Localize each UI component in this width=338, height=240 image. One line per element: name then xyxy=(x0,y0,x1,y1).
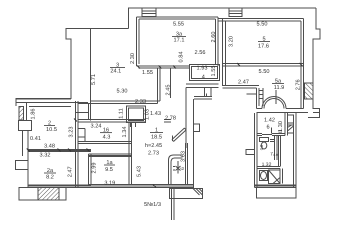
room3 right wall xyxy=(158,68,161,104)
svg-text:0.8: 0.8 xyxy=(259,144,264,150)
room4 box xyxy=(190,65,220,81)
dim line 2.45 xyxy=(170,68,172,98)
closet door stubs xyxy=(131,123,136,128)
window W2 xyxy=(229,8,242,17)
svg-text:5.50: 5.50 xyxy=(259,69,270,75)
room2 wall inner edge xyxy=(29,105,71,107)
svg-text:18.5: 18.5 xyxy=(151,135,162,141)
rooms bottom wall xyxy=(89,185,194,188)
corridor wall xyxy=(223,86,260,89)
balcony hatch xyxy=(38,188,59,201)
slab hatch xyxy=(193,189,203,196)
pipe elbow xyxy=(169,155,183,184)
wall room3a right xyxy=(216,17,219,66)
bathtub xyxy=(269,170,281,184)
vent shaft hatched xyxy=(305,83,314,99)
svg-text:2.76: 2.76 xyxy=(296,79,302,90)
svg-text:4.0: 4.0 xyxy=(273,153,278,157)
svg-text:5.55: 5.55 xyxy=(173,22,184,28)
room5a left wall xyxy=(257,88,260,109)
room16 bottom wall xyxy=(78,142,132,144)
svg-text:3.19: 3.19 xyxy=(104,181,115,187)
svg-text:2.47: 2.47 xyxy=(68,166,74,177)
svg-text:9.5: 9.5 xyxy=(105,167,113,173)
svg-text:1.86: 1.86 xyxy=(31,109,37,120)
wall room3a top xyxy=(137,17,219,19)
sink xyxy=(260,171,268,181)
outer wall top xyxy=(129,8,317,29)
svg-text:1.43: 1.43 xyxy=(150,111,161,117)
svg-text:5№1/3: 5№1/3 xyxy=(144,201,161,208)
room 1a top wall xyxy=(89,154,132,157)
notch on room1 wall xyxy=(194,124,200,132)
wall room5 bottom xyxy=(223,64,304,67)
svg-text:5.50: 5.50 xyxy=(257,22,268,28)
dim ticks xyxy=(27,63,303,188)
outer wall top-left with notch xyxy=(16,29,129,107)
bath block left wall xyxy=(255,113,258,188)
svg-text:3.48: 3.48 xyxy=(44,144,55,150)
svg-text:0.41: 0.41 xyxy=(30,136,41,142)
svg-text:17.1: 17.1 xyxy=(174,37,185,43)
svg-text:3.23: 3.23 xyxy=(69,127,75,138)
svg-text:1.93: 1.93 xyxy=(197,66,208,72)
left wall below box xyxy=(23,131,29,188)
hall top wall long xyxy=(78,120,171,123)
pipes right room7 xyxy=(270,136,277,161)
room7 right divider xyxy=(279,136,281,167)
section leader lines xyxy=(171,188,174,220)
balcony rect xyxy=(19,188,66,201)
svg-text:4: 4 xyxy=(202,75,205,81)
svg-text:3.32: 3.32 xyxy=(40,153,51,159)
svg-text:0.84: 0.84 xyxy=(179,52,185,63)
hatch window left xyxy=(19,103,27,120)
wall room5 right xyxy=(301,19,304,109)
room3 left wall xyxy=(90,29,92,121)
svg-text:1.55: 1.55 xyxy=(211,66,217,77)
notch left of block xyxy=(246,150,255,155)
room2 top outer wall xyxy=(16,98,71,100)
bath right wall xyxy=(280,169,283,184)
wall room3a left xyxy=(137,17,140,66)
svg-text:11.9: 11.9 xyxy=(274,85,284,91)
svg-text:2.56: 2.56 xyxy=(195,50,206,56)
svg-text:10.5: 10.5 xyxy=(46,127,57,133)
room6 right wall xyxy=(285,113,288,136)
door room6 xyxy=(262,128,272,135)
svg-text:1.42: 1.42 xyxy=(264,117,275,123)
svg-text:1.34: 1.34 xyxy=(122,127,128,138)
closet box xyxy=(127,106,146,123)
bath block right wall xyxy=(294,113,297,188)
window W1 xyxy=(142,8,156,17)
svg-text:8.2: 8.2 xyxy=(46,175,54,181)
svg-text:2.30: 2.30 xyxy=(130,53,136,64)
outer wall room2 block top inner line xyxy=(16,102,88,104)
door arc inner xyxy=(264,99,284,109)
svg-text:2.73: 2.73 xyxy=(148,151,159,157)
wall room5 top xyxy=(218,19,304,22)
door jamb rungs xyxy=(260,88,264,106)
pipes below room4 xyxy=(205,87,212,96)
porch rect xyxy=(257,188,297,199)
svg-text:2.60: 2.60 xyxy=(211,32,217,43)
corridor step xyxy=(247,93,257,95)
svg-text:2.33: 2.33 xyxy=(135,99,146,105)
outer wall right foot xyxy=(308,99,320,118)
svg-text:1.32: 1.32 xyxy=(262,162,272,168)
room 2a top wall xyxy=(28,150,91,152)
room1a left wall xyxy=(89,154,92,185)
pipes bottom wall xyxy=(194,94,212,100)
svg-text:2.78: 2.78 xyxy=(165,116,176,122)
svg-text:6: 6 xyxy=(266,125,269,131)
door arc room5a xyxy=(262,97,286,109)
slab bottom middle xyxy=(170,189,203,199)
room4 lower lines xyxy=(186,84,219,87)
svg-text:4.3: 4.3 xyxy=(103,135,111,141)
room2 right wall xyxy=(75,101,78,188)
small box left xyxy=(19,121,32,131)
shaft right of room6 xyxy=(288,115,294,133)
svg-text:17.6: 17.6 xyxy=(258,44,269,50)
svg-text:1.11: 1.11 xyxy=(118,108,124,118)
room2a bottom wall xyxy=(28,185,91,188)
block bottom wall xyxy=(255,185,297,188)
svg-text:5.71: 5.71 xyxy=(91,74,97,85)
left wall pilaster xyxy=(16,161,29,170)
room1 right wall xyxy=(186,87,194,188)
svg-text:5.30: 5.30 xyxy=(117,89,128,95)
svg-text:3.24: 3.24 xyxy=(91,124,102,130)
outer wall right jog xyxy=(313,8,320,83)
svg-text:6: 6 xyxy=(180,167,186,170)
svg-text:1.30: 1.30 xyxy=(278,121,284,132)
shaft lines xyxy=(75,104,90,142)
toilet xyxy=(260,138,269,150)
svg-text:2.47: 2.47 xyxy=(238,80,249,86)
wall room5 left xyxy=(223,19,226,87)
svg-text:24.1: 24.1 xyxy=(110,68,121,74)
svg-text:3.20: 3.20 xyxy=(229,36,235,47)
door leaf room1 entrance xyxy=(172,128,186,142)
bath top wall xyxy=(257,167,280,169)
wall room3a bottom xyxy=(137,66,191,68)
riser pipes room1 xyxy=(186,143,188,185)
door leader xyxy=(275,90,277,104)
svg-text:2.45: 2.45 xyxy=(166,85,172,96)
tiny marks xyxy=(279,131,283,133)
svg-text:1.55: 1.55 xyxy=(142,70,153,76)
svg-text:h=2.45: h=2.45 xyxy=(145,142,162,149)
room5a bottom wall xyxy=(257,109,320,113)
room3 bottom wall xyxy=(91,101,161,104)
svg-text:3.63: 3.63 xyxy=(181,151,187,162)
valve xyxy=(173,161,181,174)
room1a right wall xyxy=(129,122,132,185)
svg-text:5.43: 5.43 xyxy=(137,166,143,177)
svg-text:2.99: 2.99 xyxy=(92,163,98,174)
room6 bottom wall xyxy=(257,134,285,136)
